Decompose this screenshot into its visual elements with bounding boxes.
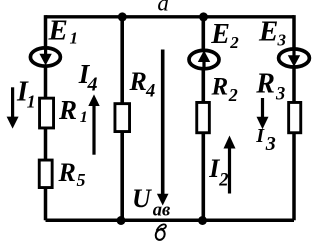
junction dot top-right (E2 top) (199, 12, 208, 21)
label E1 (48, 15, 79, 48)
label R1 (58, 95, 88, 126)
label R3 (255, 68, 285, 104)
svg-text:ав: ав (153, 200, 171, 220)
svg-text:2: 2 (228, 85, 238, 105)
svg-text:R: R (255, 68, 275, 99)
label E3 (258, 16, 287, 50)
label Uab (132, 184, 170, 220)
svg-text:R: R (58, 95, 77, 125)
label E2 (210, 19, 239, 52)
resistor R3 (289, 102, 301, 132)
svg-text:R: R (129, 67, 147, 96)
EMF source E3 (circle with down arrow) (279, 47, 310, 67)
EMF source E1 (circle with down arrow) (30, 46, 60, 66)
resistor R1 (40, 98, 54, 128)
svg-text:R: R (211, 74, 229, 101)
voltage arrow Uab (down) (157, 50, 169, 206)
svg-text:2: 2 (229, 33, 239, 52)
svg-text:E: E (258, 16, 278, 48)
label R2 (211, 74, 238, 105)
svg-text:E: E (210, 19, 230, 50)
resistor R4 (115, 104, 130, 132)
label I2 (208, 154, 228, 190)
svg-text:1: 1 (80, 109, 88, 126)
svg-text:5: 5 (77, 170, 86, 190)
junction dot bottom-right (R2 bottom) (198, 216, 207, 225)
current arrow I2 (up) (224, 136, 236, 194)
wire: top bus (node a) (46, 15, 295, 18)
EMF source E2 (circle with up arrow) (189, 50, 219, 70)
label R4 (129, 67, 156, 101)
svg-text:R: R (58, 158, 76, 187)
current arrow I4 (up) (88, 94, 99, 154)
wire: right branch E3-R3 (292, 15, 296, 220)
wire: left branch E1-R1-R5 (44, 15, 48, 220)
label I4 (78, 59, 98, 95)
label R5 (58, 158, 86, 190)
svg-text:4: 4 (87, 73, 98, 95)
node label в (custom italic glyph) (154, 224, 166, 241)
svg-text:4: 4 (145, 81, 155, 101)
label I1 (16, 77, 36, 112)
wire: bottom bus (node в) (46, 219, 295, 223)
label I3 (255, 125, 276, 155)
wire: branch R4 (120, 17, 124, 221)
svg-text:а: а (157, 0, 169, 16)
wire: branch E2-R2 (202, 17, 206, 221)
junction dot bottom-left (R4 bottom) (117, 216, 126, 225)
svg-text:2: 2 (218, 171, 228, 191)
junction dot top-left (R4 top) (118, 12, 127, 21)
svg-text:1: 1 (27, 91, 36, 111)
current arrow I3 (down) (257, 98, 269, 129)
current arrow I1 (down) (7, 87, 19, 128)
svg-text:3: 3 (277, 31, 287, 50)
resistor R5 (39, 160, 52, 188)
svg-text:1: 1 (70, 29, 79, 48)
svg-text:E: E (48, 15, 68, 47)
svg-text:3: 3 (265, 133, 276, 155)
resistor R2 (197, 102, 210, 132)
svg-text:I: I (255, 125, 265, 147)
svg-text:U: U (132, 184, 152, 213)
svg-text:3: 3 (275, 85, 285, 105)
